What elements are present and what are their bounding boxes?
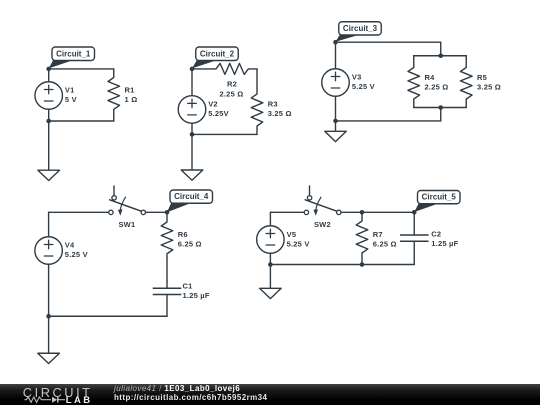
svg-text:1.25 µF: 1.25 µF: [183, 291, 210, 300]
svg-text:R6: R6: [178, 230, 188, 239]
wire: [414, 107, 467, 109]
svg-text:5.25 V: 5.25 V: [352, 82, 375, 91]
label V3: [352, 73, 362, 82]
svg-text:6.25 Ω: 6.25 Ω: [178, 239, 202, 248]
wire: [48, 212, 50, 236]
svg-text:3.25 Ω: 3.25 Ω: [268, 109, 292, 118]
wire: [48, 121, 50, 170]
voltage source V4: [35, 237, 63, 265]
svg-text:5.25V: 5.25V: [208, 109, 229, 118]
ground: [38, 170, 60, 180]
resistor R3: [251, 69, 263, 134]
wire: [256, 68, 258, 70]
wire: [269, 265, 271, 289]
node junction: [360, 262, 365, 267]
node junction: [333, 40, 338, 45]
label R7: [373, 230, 383, 239]
svg-text:R4: R4: [425, 73, 436, 82]
label R6 value 6.25 Ω: [178, 239, 202, 248]
svg-text:C1: C1: [183, 281, 193, 290]
footer bar: [0, 384, 540, 405]
wire: [166, 258, 168, 281]
wire: [335, 96, 337, 121]
svg-text:V2: V2: [208, 99, 218, 108]
ground: [38, 353, 60, 363]
svg-text:C2: C2: [431, 229, 441, 238]
label Circuit_3 callout: [336, 22, 382, 42]
label R6: [178, 230, 188, 239]
svg-text:SW1: SW1: [118, 220, 135, 229]
CircuitLab logo: [23, 385, 93, 405]
node junction: [190, 67, 195, 72]
wire: [191, 69, 193, 96]
voltage source V1: [35, 82, 63, 110]
svg-text:Circuit_1: Circuit_1: [56, 49, 91, 58]
resistor R7: [356, 212, 368, 264]
wire: [48, 316, 50, 353]
node junction: [268, 262, 273, 267]
label C1: [183, 281, 193, 290]
svg-text:Circuit_5: Circuit_5: [422, 193, 457, 202]
capacitor C1: [153, 281, 182, 316]
label Circuit_1 callout: [49, 47, 95, 68]
svg-text:5 V: 5 V: [65, 95, 77, 104]
label R3: [268, 99, 278, 108]
resistor R5: [460, 56, 472, 108]
label V1: [65, 85, 75, 94]
wire: [48, 109, 50, 121]
label V5: [287, 230, 297, 239]
switch SW2: [304, 186, 341, 216]
wire: [49, 315, 167, 317]
label R4 value 2.25 Ω: [425, 83, 449, 92]
wire: [270, 211, 304, 213]
label C2 value 1.25 µF: [431, 239, 458, 248]
label R2: [227, 79, 237, 88]
wire: [269, 253, 271, 264]
svg-text:R1: R1: [125, 85, 135, 94]
label R3 value 3.25 Ω: [268, 109, 292, 118]
label R2 value 2.25 Ω: [219, 89, 243, 98]
svg-text:2.25 Ω: 2.25 Ω: [425, 83, 449, 92]
svg-text:R3: R3: [268, 99, 278, 108]
wire: [414, 55, 467, 57]
wire: [336, 42, 441, 56]
wire: [192, 68, 214, 70]
label C2: [431, 229, 441, 238]
wire: [49, 120, 114, 122]
label Circuit_2 callout: [192, 47, 238, 68]
svg-text:Circuit_3: Circuit_3: [343, 24, 378, 33]
svg-text:5.25 V: 5.25 V: [287, 239, 310, 248]
svg-text:V4: V4: [65, 241, 75, 250]
label Circuit_4 callout: [167, 190, 213, 212]
label R5: [477, 73, 487, 82]
label V4 value 5.25 V: [65, 250, 88, 259]
label V4: [65, 241, 75, 250]
label V5 value 5.25 V: [287, 239, 310, 248]
label R7 value 6.25 Ω: [373, 239, 397, 248]
voltage source V2: [178, 96, 206, 124]
svg-text:R7: R7: [373, 230, 383, 239]
wire: [146, 211, 168, 213]
label R4: [425, 73, 436, 82]
voltage source V5: [257, 226, 285, 254]
svg-text:6.25 Ω: 6.25 Ω: [373, 239, 397, 248]
wire: [48, 69, 50, 82]
node junction: [46, 67, 51, 72]
wire: [335, 121, 337, 131]
svg-text:R2: R2: [227, 79, 237, 88]
svg-text:1 Ω: 1 Ω: [125, 95, 138, 104]
node junction: [412, 210, 417, 215]
node junction: [438, 105, 443, 110]
svg-text:SW2: SW2: [314, 220, 331, 229]
node junction: [165, 210, 170, 215]
svg-text:3.25 Ω: 3.25 Ω: [477, 83, 501, 92]
ground: [181, 170, 203, 180]
wire: [269, 212, 271, 225]
node junction: [46, 119, 51, 124]
svg-text:R5: R5: [477, 73, 487, 82]
label V2: [208, 99, 218, 108]
label R5 value 3.25 Ω: [477, 83, 501, 92]
node junction: [360, 210, 365, 215]
svg-text:V1: V1: [65, 85, 75, 94]
label R1 value 1 Ω: [125, 95, 138, 104]
wire: [335, 42, 337, 69]
svg-text:LAB: LAB: [66, 395, 93, 405]
svg-text:Circuit_4: Circuit_4: [174, 192, 209, 201]
wire: [49, 211, 109, 213]
wire: [192, 133, 257, 135]
resistor R2: [214, 63, 257, 74]
svg-text:5.25 V: 5.25 V: [65, 250, 88, 259]
label V1 value 5 V: [65, 95, 77, 104]
label C1 value 1.25 µF: [183, 291, 210, 300]
svg-text:2.25 Ω: 2.25 Ω: [219, 89, 243, 98]
ground: [260, 288, 282, 298]
label R1: [125, 85, 135, 94]
node junction: [438, 53, 443, 58]
wire: [191, 123, 193, 134]
wire: [48, 264, 50, 316]
resistor R4: [408, 56, 420, 108]
wire: [49, 68, 114, 70]
wire: [191, 134, 193, 170]
svg-text:Circuit_2: Circuit_2: [200, 49, 235, 58]
label SW1: [118, 220, 135, 229]
label V3 value 5.25 V: [352, 82, 375, 91]
svg-text:1.25 µF: 1.25 µF: [431, 239, 458, 248]
wire: [270, 264, 414, 266]
ground: [325, 131, 347, 141]
svg-text:V3: V3: [352, 73, 362, 82]
node junction: [333, 119, 338, 124]
label V2 value 5.25V: [208, 109, 229, 118]
svg-text:V5: V5: [287, 230, 297, 239]
label SW2: [314, 220, 331, 229]
node junction: [46, 314, 51, 319]
credit text: [114, 385, 267, 402]
resistor R6: [161, 212, 173, 258]
wire: [336, 108, 441, 121]
switch SW1: [109, 186, 146, 216]
wire: [341, 211, 414, 213]
voltage source V3: [322, 69, 350, 97]
capacitor C2: [400, 212, 429, 264]
resistor R1: [108, 69, 120, 121]
label Circuit_5 callout: [414, 191, 460, 213]
node junction: [190, 132, 195, 137]
